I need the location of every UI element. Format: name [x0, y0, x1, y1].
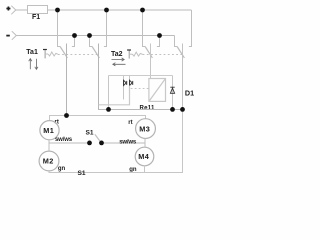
- wire + bus after fuse: [48, 9, 192, 11]
- fuse F1: [28, 6, 48, 22]
- svg-text:S1: S1: [78, 170, 86, 177]
- + supply terminal: [6, 6, 15, 15]
- wire sw/ws tap to S1: [49, 142, 90, 144]
- svg-text:Re11: Re11: [140, 104, 155, 111]
- Ta2 pole A common wire to relay coil: [150, 44, 152, 79]
- wire bottom gn bus: [49, 110, 183, 173]
- Ta1 spring: [48, 52, 58, 56]
- Ta2 pole A lever: [145, 47, 152, 58]
- Ta1 manual actuator: [43, 50, 48, 59]
- relay module Re11 box top: [109, 75, 173, 77]
- wire Ta2 pole B - contact drop: [175, 36, 178, 47]
- wire Ta1 pole B - contact drop: [90, 36, 93, 47]
- motor M3: [136, 119, 156, 139]
- svg-text:D1: D1: [185, 89, 194, 98]
- wire LED 2 return under box: [99, 86, 130, 105]
- switch S1 upper lever: [95, 134, 101, 142]
- node output row diode: [170, 107, 175, 112]
- wire Ta1 pole A + contact drop: [58, 10, 61, 47]
- relay LED 1: [124, 76, 127, 100]
- motor M2: [39, 151, 59, 171]
- Ta2 pole B lever: [177, 47, 184, 58]
- svg-text:S1: S1: [86, 130, 94, 137]
- Ta1 pole B lever: [92, 47, 99, 58]
- Ta1 pole A common wire: [66, 44, 68, 116]
- switch S1 upper right node: [99, 141, 104, 146]
- svg-text:Ta1: Ta1: [26, 49, 38, 56]
- svg-text:sw/ws: sw/ws: [55, 137, 73, 143]
- svg-text:gn: gn: [58, 166, 66, 172]
- svg-text:F1: F1: [32, 14, 40, 21]
- wire M1-M2 link: [48, 140, 50, 151]
- Ta2 spring: [132, 52, 142, 56]
- motor M4: [135, 147, 154, 166]
- wire Ta2 pole A - contact drop: [157, 36, 160, 47]
- node output row left: [106, 107, 111, 112]
- relay LED 2: [130, 76, 133, 86]
- svg-text:rt: rt: [128, 120, 132, 126]
- svg-text:Ta2: Ta2: [111, 51, 123, 58]
- wire M3-M4 link: [144, 139, 146, 148]
- relay internal link dashed: [131, 88, 149, 90]
- Ta1 pole B common wire: [99, 44, 109, 110]
- wire + bus to fuse: [16, 9, 28, 11]
- svg-text:M3: M3: [139, 124, 150, 133]
- node - bus x74: [72, 33, 77, 38]
- node + bus x106: [104, 8, 109, 13]
- switch S1 upper left node: [87, 141, 92, 146]
- wire Ta2 pole B + contact drop: [189, 10, 192, 47]
- Ta2 mechanical link dashed: [143, 54, 183, 56]
- motor M1: [40, 121, 59, 140]
- wire Ta1 pole B + contact drop: [104, 10, 107, 47]
- svg-text:M4: M4: [138, 152, 149, 161]
- wire relay output row: [99, 109, 183, 111]
- node - bus x89: [87, 33, 92, 38]
- wire M4 stub: [144, 166, 146, 173]
- svg-text:M1: M1: [43, 126, 54, 135]
- Ta2 pole B common wire: [182, 44, 184, 110]
- Ta2 direction arrows right/left: [112, 58, 126, 66]
- Ta1 mechanical link dashed: [58, 54, 99, 56]
- svg-text:sw/ws: sw/ws: [119, 139, 137, 145]
- wire sw/ws to M3/M4: [102, 142, 146, 144]
- wire Ta2 pole A + contact drop: [143, 10, 146, 47]
- Ta1 pole A lever: [60, 47, 67, 58]
- diode D1: [170, 87, 174, 93]
- - supply terminal: [6, 31, 16, 40]
- relay coil Re11: [149, 79, 166, 102]
- Ta1 direction arrows up/down: [29, 59, 38, 70]
- relay module Re11 box left edge wire: [108, 76, 110, 110]
- node + bus x57: [55, 8, 60, 13]
- node rt row: [64, 113, 69, 118]
- Ta2 manual actuator: [127, 50, 132, 59]
- node - bus x159: [157, 33, 162, 38]
- svg-text:M2: M2: [43, 157, 54, 166]
- wire - bus: [16, 35, 174, 37]
- node output row right: [180, 107, 185, 112]
- wire diode D1 branch on module right edge: [172, 76, 174, 110]
- wire rt row: [50, 116, 146, 121]
- node + bus x142: [140, 8, 145, 13]
- wire Ta1 pole A - contact drop: [72, 36, 75, 47]
